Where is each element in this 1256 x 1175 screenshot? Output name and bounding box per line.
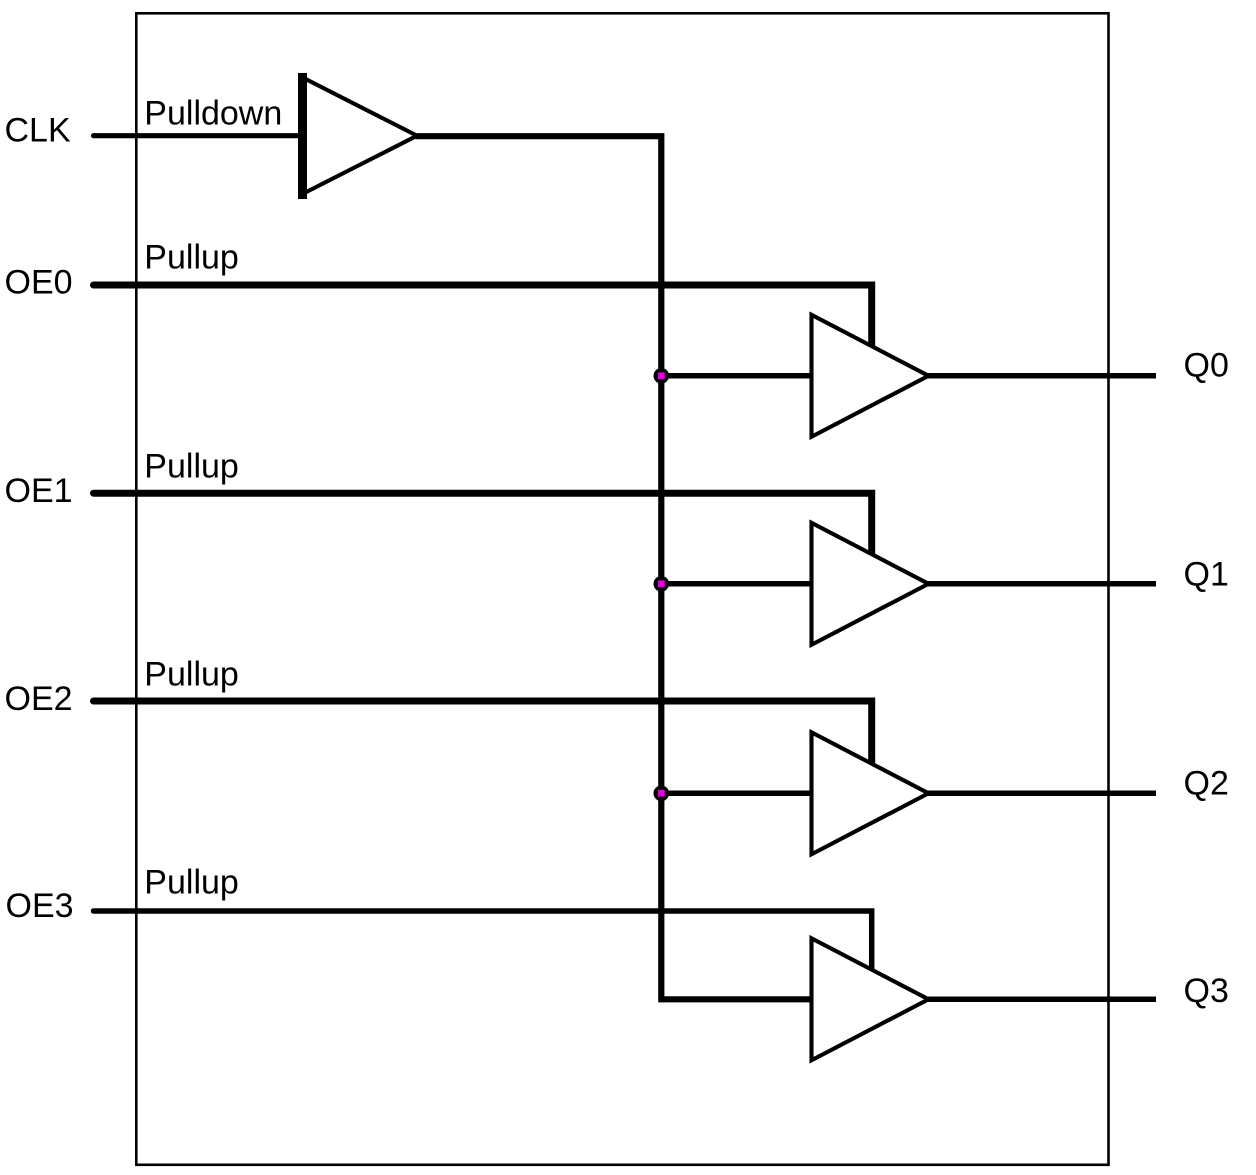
wire Q0 output <box>928 373 1157 379</box>
svg-text:Q3: Q3 <box>1184 972 1229 1010</box>
wire trunk to buffer U3 input <box>661 581 813 587</box>
wire trunk to buffer U4 input <box>661 791 813 797</box>
wire U1 output to trunk and trunk down to U5 input <box>416 136 814 999</box>
wire OE3 enable <box>94 911 872 974</box>
chip outline <box>136 13 1108 1165</box>
svg-text:Q2: Q2 <box>1184 765 1229 803</box>
svg-text:Q0: Q0 <box>1184 347 1229 385</box>
svg-text:Pulldown: Pulldown <box>144 94 282 132</box>
svg-text:CLK: CLK <box>5 111 71 149</box>
junction node on trunk (row Q1) <box>654 576 670 592</box>
buffer U3 (output buffer Q1) <box>812 523 929 645</box>
buffer U5 (output buffer Q3) <box>812 938 929 1060</box>
wire Q1 output <box>928 581 1157 587</box>
svg-text:Pullup: Pullup <box>144 864 239 902</box>
svg-text:Pullup: Pullup <box>144 448 239 486</box>
wire OE1 enable <box>94 493 872 559</box>
wire Q2 output <box>928 791 1157 797</box>
svg-text:Pullup: Pullup <box>144 238 239 276</box>
junction node on trunk (row Q0) <box>654 368 670 384</box>
wire OE2 enable <box>94 701 872 768</box>
buffer U2 (output buffer Q0) <box>812 315 929 437</box>
buffer U1 (CLK input buffer) <box>303 73 418 199</box>
wire trunk to buffer U2 input <box>661 373 813 379</box>
wire OE0 enable <box>94 285 872 351</box>
wire Q3 output <box>928 997 1157 1003</box>
svg-text:OE0: OE0 <box>5 264 73 302</box>
svg-text:Q1: Q1 <box>1184 556 1229 594</box>
wire CLK input <box>94 133 303 138</box>
svg-text:OE3: OE3 <box>6 887 74 925</box>
junction node on trunk (row Q2) <box>654 786 670 802</box>
svg-text:Pullup: Pullup <box>144 656 239 694</box>
buffer U4 (output buffer Q2) <box>812 732 929 854</box>
svg-text:OE2: OE2 <box>5 680 73 718</box>
svg-text:OE1: OE1 <box>5 472 73 510</box>
